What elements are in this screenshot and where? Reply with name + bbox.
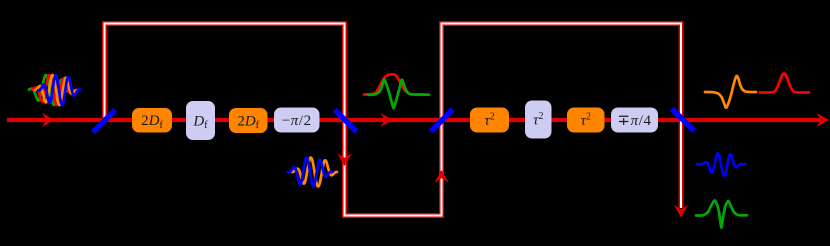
svg-text:−π/2: −π/2	[282, 113, 312, 129]
svg-text:∓π/4: ∓π/4	[617, 113, 651, 129]
